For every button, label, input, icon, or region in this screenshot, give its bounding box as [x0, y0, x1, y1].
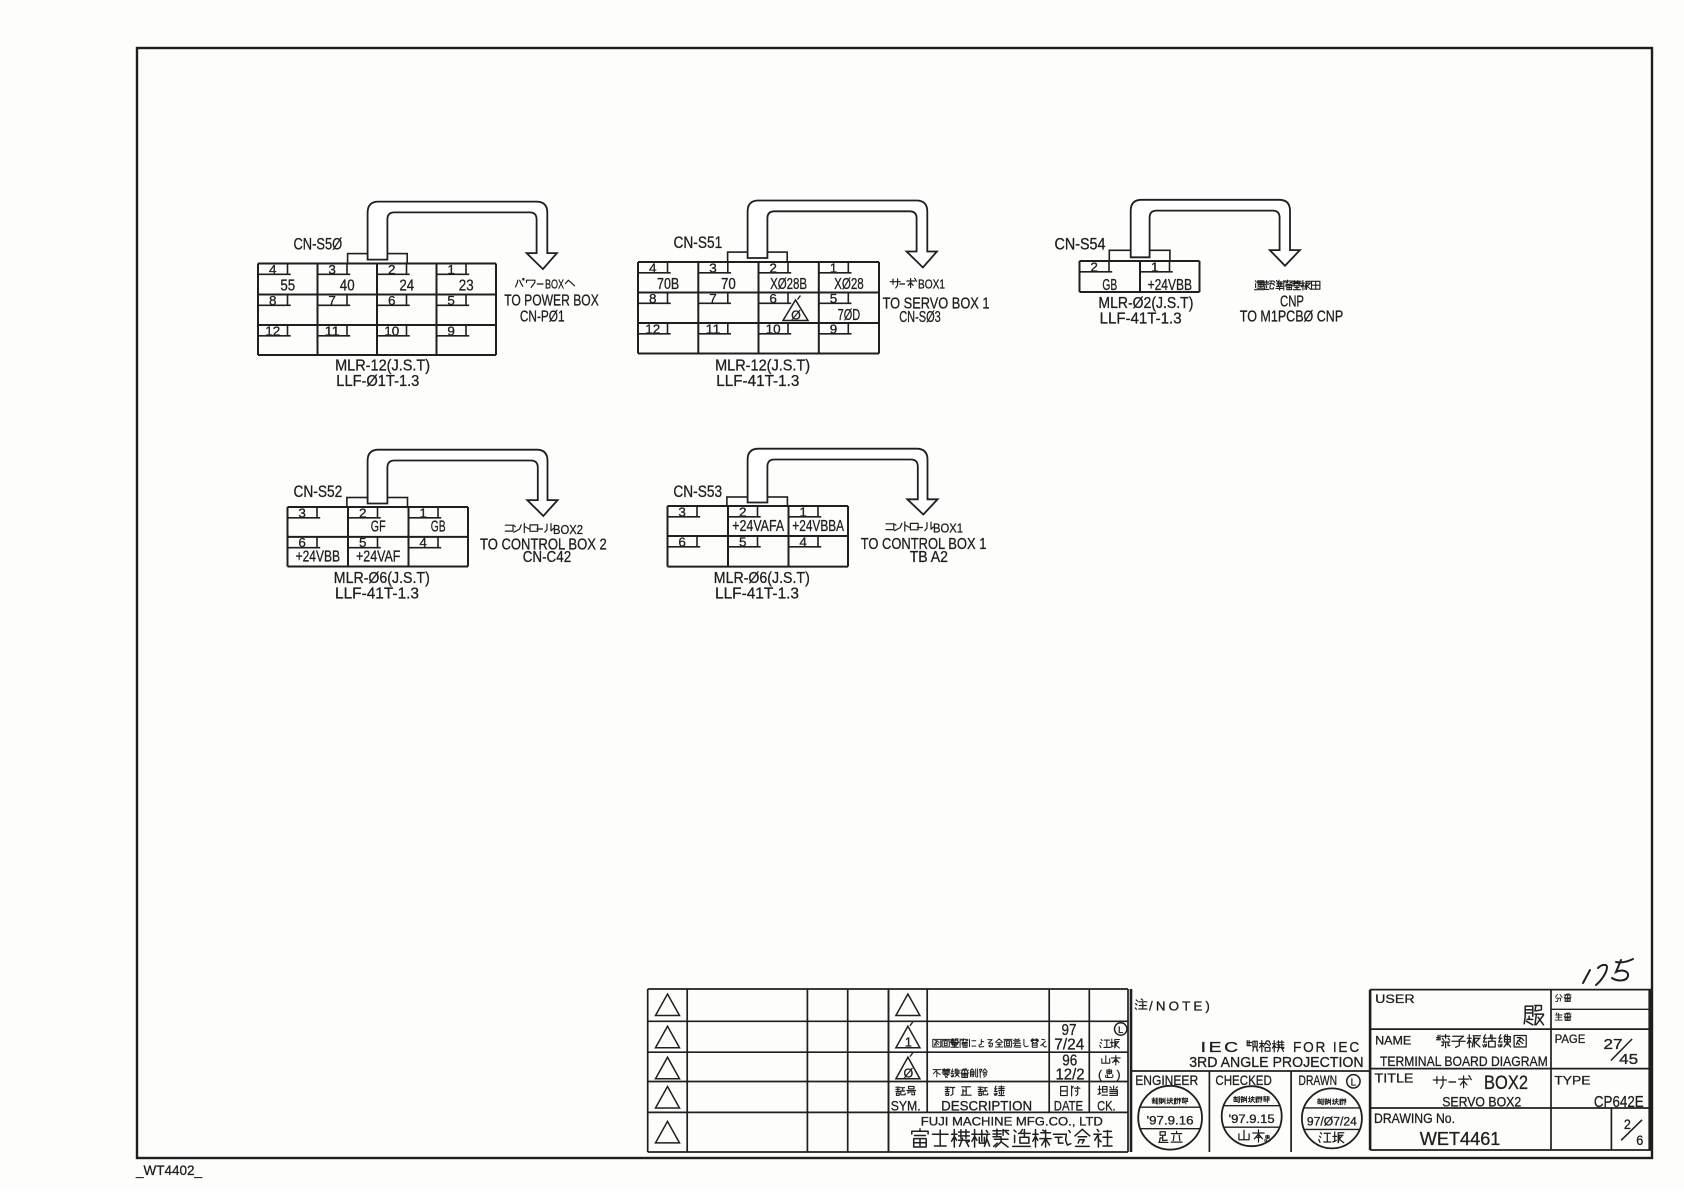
svg-text:GB: GB [431, 519, 446, 536]
svg-text:8: 8 [649, 291, 657, 306]
svg-text:1: 1 [830, 260, 838, 275]
svg-text:4: 4 [419, 535, 427, 550]
svg-text:L: L [1351, 1077, 1357, 1088]
svg-text:CK.: CK. [1097, 1098, 1116, 1114]
svg-text:CN-S53: CN-S53 [673, 483, 722, 501]
svg-text:7/24: 7/24 [1054, 1037, 1084, 1054]
svg-text:4: 4 [269, 262, 277, 277]
svg-text:DRAWN: DRAWN [1299, 1072, 1338, 1088]
svg-text:GB: GB [1102, 277, 1117, 294]
svg-text:): ) [1117, 1068, 1121, 1082]
svg-text:CN-C42: CN-C42 [523, 549, 572, 566]
svg-text:8: 8 [269, 293, 277, 308]
svg-text:DRAWING No.: DRAWING No. [1374, 1111, 1455, 1126]
svg-text:10: 10 [384, 323, 399, 338]
svg-text:11: 11 [325, 323, 340, 338]
svg-text:CN-S5Ø: CN-S5Ø [294, 236, 343, 254]
svg-text:2: 2 [388, 262, 396, 277]
svg-text:CN-SØ3: CN-SØ3 [899, 309, 941, 326]
svg-text:11: 11 [706, 321, 721, 336]
svg-text:40: 40 [340, 278, 355, 295]
svg-text:FUJI MACHINE MFG.CO., LTD: FUJI MACHINE MFG.CO., LTD [921, 1114, 1103, 1128]
svg-text:+24VBB: +24VBB [296, 549, 340, 566]
svg-text:LLF-Ø1T-1.3: LLF-Ø1T-1.3 [336, 373, 419, 390]
svg-text:MLR-Ø2(J.S.T): MLR-Ø2(J.S.T) [1098, 295, 1193, 312]
svg-text:6: 6 [678, 534, 686, 549]
svg-text:CN-S51: CN-S51 [674, 234, 723, 252]
svg-text:12: 12 [645, 321, 660, 336]
svg-text:2: 2 [769, 260, 777, 275]
svg-text:9: 9 [830, 321, 838, 336]
svg-text:DATE: DATE [1054, 1098, 1083, 1114]
svg-text:WET4461: WET4461 [1420, 1128, 1501, 1149]
svg-text:PAGE: PAGE [1555, 1032, 1586, 1046]
svg-text:5: 5 [830, 291, 838, 306]
svg-text:TITLE: TITLE [1375, 1071, 1414, 1086]
svg-text:CP642E: CP642E [1594, 1094, 1644, 1111]
svg-text:5: 5 [739, 534, 747, 549]
svg-text:6: 6 [769, 291, 777, 306]
svg-text:(: ( [1098, 1068, 1102, 1082]
svg-text:70B: 70B [657, 276, 679, 293]
svg-text:TO M1PCBØ CNP: TO M1PCBØ CNP [1240, 309, 1343, 326]
svg-text:TERMINAL BOARD DIAGRAM: TERMINAL BOARD DIAGRAM [1380, 1053, 1548, 1069]
svg-text:LLF-41T-1.3: LLF-41T-1.3 [1100, 311, 1182, 328]
svg-text:12/2: 12/2 [1056, 1067, 1085, 1084]
svg-text:'97.9.15: '97.9.15 [1229, 1114, 1275, 1126]
svg-text:GF: GF [371, 519, 386, 536]
svg-text:3: 3 [709, 260, 717, 275]
svg-text:XØ28: XØ28 [834, 276, 864, 293]
svg-text:55: 55 [280, 278, 295, 295]
svg-text:L: L [1118, 1025, 1123, 1036]
svg-text:4: 4 [799, 534, 807, 549]
svg-text:4: 4 [649, 260, 657, 275]
svg-text:7ØD: 7ØD [838, 307, 861, 324]
svg-text:BOX2: BOX2 [1484, 1073, 1528, 1094]
svg-text:70: 70 [721, 276, 736, 293]
svg-text:Ø: Ø [904, 1067, 914, 1081]
svg-text:NAME: NAME [1375, 1034, 1411, 1048]
svg-text:+24VAF: +24VAF [356, 549, 401, 566]
svg-text:BOX1: BOX1 [918, 277, 945, 292]
svg-text:MLR-12(J.S.T): MLR-12(J.S.T) [335, 358, 430, 375]
svg-text:23: 23 [459, 278, 474, 295]
svg-text:CN-S54: CN-S54 [1055, 236, 1106, 254]
svg-text:6: 6 [1636, 1132, 1643, 1148]
svg-text:MLR-Ø6(J.S.T): MLR-Ø6(J.S.T) [334, 570, 430, 587]
svg-text:9: 9 [447, 323, 455, 338]
svg-text:45: 45 [1619, 1051, 1638, 1068]
svg-text:BOX1: BOX1 [933, 521, 963, 536]
svg-text:DESCRIPTION: DESCRIPTION [941, 1098, 1032, 1114]
svg-text:MLR-Ø6(J.S.T): MLR-Ø6(J.S.T) [714, 570, 810, 587]
svg-text:'97.9.16: '97.9.16 [1147, 1116, 1194, 1128]
svg-text:3RD ANGLE PROJECTION: 3RD ANGLE PROJECTION [1189, 1054, 1363, 1071]
svg-text:2: 2 [1624, 1116, 1631, 1132]
svg-text:10: 10 [766, 321, 781, 336]
svg-text:LLF-41T-1.3: LLF-41T-1.3 [335, 586, 419, 603]
svg-text:LLF-41T-1.3: LLF-41T-1.3 [716, 373, 799, 390]
svg-text:XØ28B: XØ28B [770, 276, 807, 293]
svg-text:TYPE: TYPE [1554, 1074, 1590, 1088]
svg-text:CN-PØ1: CN-PØ1 [520, 308, 565, 325]
svg-text:2: 2 [1090, 259, 1098, 274]
svg-text:LLF-41T-1.3: LLF-41T-1.3 [715, 586, 799, 603]
svg-text:1: 1 [447, 262, 455, 277]
svg-text:1: 1 [905, 1036, 912, 1050]
svg-text:3: 3 [678, 504, 686, 519]
svg-text:24: 24 [399, 278, 414, 295]
svg-text:Ø: Ø [791, 308, 801, 322]
svg-text:BOX2: BOX2 [553, 522, 583, 537]
svg-text:1: 1 [1151, 259, 1159, 274]
svg-text:USER: USER [1375, 992, 1415, 1006]
svg-text:12: 12 [265, 323, 280, 338]
svg-text:2: 2 [359, 505, 367, 520]
svg-text:97/Ø7/24: 97/Ø7/24 [1307, 1116, 1358, 1128]
svg-text:_WT4402_: _WT4402_ [135, 1162, 202, 1178]
svg-text:3: 3 [328, 262, 336, 277]
svg-text:6: 6 [388, 293, 396, 308]
svg-text:TO POWER BOX: TO POWER BOX [504, 293, 599, 310]
svg-text:SYM.: SYM. [891, 1098, 921, 1114]
svg-text:7: 7 [328, 293, 336, 308]
svg-text:+24VAFA: +24VAFA [732, 518, 784, 535]
svg-text:1: 1 [419, 505, 427, 520]
svg-text:7: 7 [709, 291, 717, 306]
svg-text:/NOTE): /NOTE) [1149, 999, 1213, 1014]
svg-text:CN-S52: CN-S52 [294, 483, 343, 501]
svg-text:MLR-12(J.S.T): MLR-12(J.S.T) [715, 358, 810, 375]
svg-text:SERVO BOX2: SERVO BOX2 [1442, 1094, 1521, 1109]
svg-text:3: 3 [298, 505, 306, 520]
svg-text:TB A2: TB A2 [910, 549, 948, 566]
svg-text:+24VBBA: +24VBBA [792, 518, 844, 535]
svg-text:BOX: BOX [545, 277, 564, 292]
svg-text:5: 5 [447, 293, 455, 308]
svg-text:CHECKED: CHECKED [1215, 1072, 1271, 1088]
svg-text:+24VBB: +24VBB [1148, 277, 1192, 294]
